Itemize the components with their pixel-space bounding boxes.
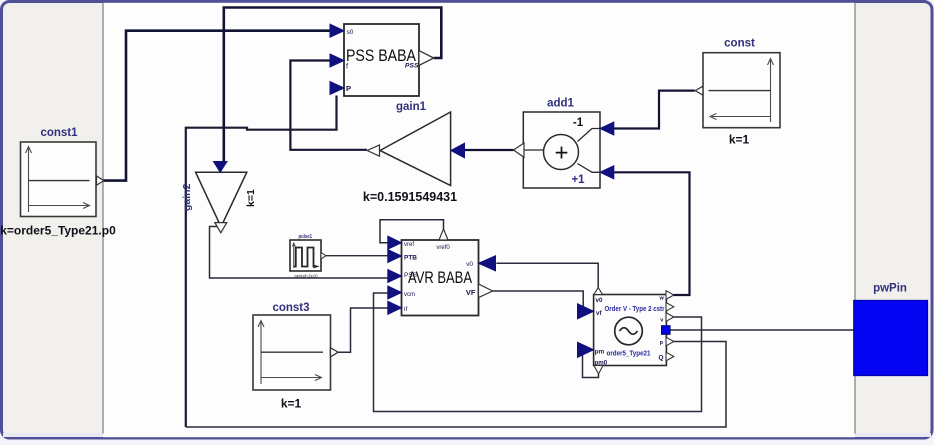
svg-text:pwPin: pwPin	[873, 283, 907, 295]
svg-text:const1: const1	[40, 127, 78, 139]
pwPin power pin block	[854, 283, 928, 376]
svg-text:vf: vf	[596, 310, 602, 317]
wire const3 output to AVR if input	[338, 308, 389, 352]
svg-text:+: +	[554, 140, 568, 167]
svg-text:add1: add1	[547, 98, 574, 110]
wire machine p output to PSS P input (bottom feedback)	[186, 96, 726, 428]
svg-text:k=1: k=1	[245, 189, 257, 207]
wire pulse1 output to AVR PTB input	[326, 255, 389, 257]
gain2 block (points down)	[181, 172, 257, 227]
wire AVR VF output to machine vf input	[493, 291, 584, 311]
svg-text:PSS: PSS	[404, 272, 418, 279]
wire machine pin to pwPin	[670, 329, 854, 331]
wire machine pm0 to machine pm (loop)	[578, 350, 599, 378]
gain1 output connector	[367, 145, 379, 156]
svg-text:period=2e10: period=2e10	[295, 274, 318, 279]
add1 output connector	[514, 143, 525, 157]
svg-text:vref0: vref0	[436, 245, 450, 251]
const1 output connector	[97, 176, 104, 185]
add1 adder block	[523, 98, 600, 189]
const output connector	[695, 86, 703, 95]
AVR BABA block	[402, 240, 479, 316]
AVR v0 input arrow (right side)	[479, 256, 496, 271]
machine v output connector	[666, 313, 674, 322]
svg-text:pm: pm	[595, 349, 605, 356]
svg-text:w: w	[659, 295, 665, 301]
machine pwPin square connector	[662, 326, 671, 335]
svg-text:+1: +1	[571, 174, 585, 186]
svg-text:k=order5_Type21.p0: k=order5_Type21.p0	[0, 224, 116, 238]
AVR PSS input arrow	[388, 270, 402, 283]
svg-text:pulse1: pulse1	[299, 234, 313, 240]
svg-text:Order V - Type 2 cstr: Order V - Type 2 cstr	[605, 304, 665, 313]
AVR PTB input arrow	[388, 250, 402, 263]
wire gain1 output to PSS f input	[290, 61, 367, 150]
svg-text:vref: vref	[404, 242, 414, 248]
PSS P input arrow	[330, 82, 344, 95]
wire machine v0 output to AVR v0 input	[496, 263, 598, 288]
wire machine v output to AVR vcm input (voltage feedback)	[374, 293, 702, 412]
machine vf input arrow	[578, 304, 594, 319]
svg-text:k=1: k=1	[281, 397, 302, 411]
AVR vcm input arrow	[388, 286, 402, 299]
wire const output to add1 -1 input	[614, 91, 695, 129]
svg-text:gain1: gain1	[396, 101, 427, 113]
svg-text:PSS: PSS	[405, 63, 419, 70]
canvas boundary left	[102, 3, 104, 434]
gain1 block (points left)	[363, 101, 457, 204]
svg-text:vcm: vcm	[404, 292, 415, 298]
svg-text:Q: Q	[658, 355, 663, 362]
wire add1 output to gain1 input	[464, 149, 514, 151]
PSS BABA block U-PSS	[344, 24, 419, 96]
wire PSS output to gain2 input	[224, 8, 441, 164]
add1 -1 input arrow	[600, 122, 614, 135]
PSS output connector	[419, 51, 434, 66]
add1 +1 input arrow	[600, 166, 614, 179]
wire gain2 output to AVR PSS input	[210, 227, 389, 279]
machine w output connector	[666, 291, 674, 300]
svg-text:k=1: k=1	[729, 133, 750, 147]
const3 constant source block	[253, 302, 331, 411]
PSS f input arrow	[330, 54, 344, 67]
gain2 output connector	[215, 223, 227, 233]
AVR if input arrow	[388, 301, 402, 314]
machine order5_Type21 generator block	[594, 295, 667, 367]
machine v0 output connector (top)	[594, 288, 603, 295]
machine Q output connector	[666, 352, 674, 361]
const3 output connector	[331, 348, 339, 357]
svg-text:const3: const3	[272, 302, 309, 314]
const constant source block (top right, mirrored)	[703, 38, 780, 147]
svg-text:const: const	[724, 38, 755, 50]
gain2 input arrow	[214, 162, 228, 173]
AVR VF output connector	[479, 284, 493, 298]
svg-text:AVR BABA: AVR BABA	[408, 269, 472, 287]
svg-text:s0: s0	[347, 29, 354, 36]
svg-text:if: if	[404, 306, 407, 313]
svg-text:v0: v0	[596, 297, 603, 304]
machine delta output connector	[666, 303, 674, 312]
AVR vref input arrow	[388, 236, 402, 249]
wire machine w output to add1 +1 input	[614, 172, 690, 295]
machine p output connector	[666, 337, 674, 346]
gain1 input arrow	[451, 143, 465, 158]
wire const1 output to PSS s0 input	[104, 31, 332, 181]
pulse1 pulse source block	[290, 234, 321, 279]
pulse1 output connector	[321, 252, 326, 259]
const1 constant source block	[0, 127, 116, 238]
machine pm0 output connector (bottom)	[594, 366, 603, 375]
svg-text:VF: VF	[466, 288, 476, 297]
svg-text:PTB: PTB	[404, 255, 417, 262]
svg-text:P: P	[346, 84, 351, 93]
svg-text:order5_Type21: order5_Type21	[607, 349, 651, 358]
canvas boundary right	[854, 3, 856, 434]
machine pm input arrow	[578, 342, 594, 357]
svg-text:v0: v0	[466, 261, 473, 268]
PSS s0 input arrow	[330, 24, 344, 37]
svg-text:k=0.1591549431: k=0.1591549431	[363, 190, 457, 204]
svg-text:gain2: gain2	[181, 183, 193, 211]
wire AVR vref0 to AVR vref (loop)	[380, 220, 444, 243]
svg-text:-1: -1	[573, 117, 584, 129]
AVR vref0 output connector (top)	[439, 229, 448, 240]
